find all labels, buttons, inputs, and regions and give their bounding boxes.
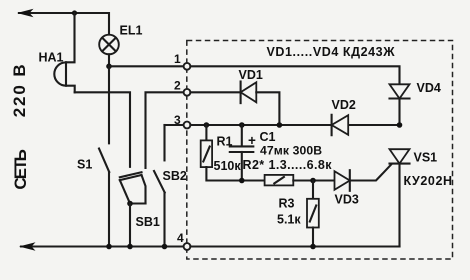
thyristor VS1	[390, 149, 410, 246]
svg-text:SB2: SB2	[163, 169, 187, 183]
svg-text:5.1к: 5.1к	[277, 213, 301, 227]
wire: node 1 to VD4	[190, 66, 399, 84]
dashed module boundary box	[187, 41, 453, 260]
node 2	[184, 89, 191, 96]
wire: lamp bottom lead	[108, 54, 110, 66]
svg-text:R2* 1.3.....6.8к: R2* 1.3.....6.8к	[243, 158, 333, 172]
junction: top wire / bell branch	[72, 10, 77, 15]
svg-text:КУ202Н: КУ202Н	[404, 174, 453, 188]
svg-text:S1: S1	[77, 158, 92, 172]
svg-text:VD4: VD4	[417, 81, 441, 95]
junction: VD1 lead	[277, 122, 283, 128]
svg-text:EL1: EL1	[120, 24, 143, 38]
junction: SB2 bottom lead	[162, 244, 168, 250]
push-button SB1	[120, 172, 146, 203]
svg-text:HA1: HA1	[39, 51, 64, 65]
junction: R3 bottom	[310, 244, 316, 250]
wire: to node 1	[109, 65, 184, 67]
svg-text:VS1: VS1	[414, 151, 438, 165]
wire: SB2 branch to node 3	[165, 124, 184, 126]
wire: SB1 to bottom conductor	[129, 204, 131, 247]
svg-text:47мк 300В: 47мк 300В	[260, 144, 322, 158]
wire: bell to SB1 left contact	[75, 92, 130, 167]
wire: node 4 to VS1 cathode	[190, 245, 399, 247]
svg-text:VD1.....VD4 КД243Ж: VD1.....VD4 КД243Ж	[267, 45, 396, 59]
svg-text:VD1: VD1	[239, 68, 263, 82]
junction: C1 top	[239, 122, 245, 128]
junction: VD4/VS1 column	[397, 122, 403, 128]
svg-text:2: 2	[174, 79, 181, 93]
junction: R2/VD3/R3	[310, 178, 316, 184]
svg-text:C1: C1	[260, 130, 276, 144]
resistor R1	[201, 125, 265, 181]
junction: lamp / node-1 wire / S1	[106, 64, 112, 70]
diode VD3	[335, 170, 350, 191]
mains arrow (bottom)	[19, 242, 36, 251]
svg-text:VD2: VD2	[332, 98, 356, 112]
switch S1	[99, 66, 109, 246]
bell HA1	[54, 13, 74, 92]
node 3	[184, 122, 191, 129]
svg-text:R3: R3	[279, 197, 295, 211]
svg-text:+: +	[248, 133, 256, 148]
svg-text:VD3: VD3	[335, 193, 359, 207]
node 1	[184, 63, 191, 70]
wire: node 2 to VD1	[190, 91, 240, 93]
junction: SB1 bottom lead	[127, 244, 133, 250]
mains arrow (top)	[17, 9, 34, 18]
svg-text:SB1: SB1	[136, 215, 160, 229]
push-button SB2	[154, 125, 165, 247]
svg-text:220 В: 220 В	[10, 64, 29, 117]
resistor R2	[265, 175, 335, 186]
wire: node-3 rail	[190, 124, 399, 126]
diode VD2	[332, 115, 349, 135]
wire: bottom mains conductor	[21, 245, 184, 247]
junction: R1 top	[204, 122, 210, 128]
svg-text:510к: 510к	[214, 159, 242, 173]
wire: top mains conductor	[19, 13, 109, 35]
diode VD4	[390, 84, 410, 125]
node 4	[184, 243, 191, 250]
capacitor C1	[230, 125, 254, 181]
junction: C1 bottom	[239, 178, 245, 184]
lamp EL1	[99, 35, 119, 55]
wire: node-2 wire to SB1 right contact	[146, 92, 184, 168]
svg-text:СЕТЬ: СЕТЬ	[11, 149, 30, 190]
svg-text:4: 4	[177, 231, 184, 245]
svg-text:3: 3	[174, 113, 181, 127]
wire: VD3 to VS1 gate	[350, 165, 391, 181]
junction: S1 bottom	[106, 244, 112, 250]
resistor R3	[307, 181, 319, 247]
wire: VD1 to node-3 rail	[256, 92, 279, 125]
diode VD1	[241, 82, 257, 104]
svg-text:1: 1	[174, 52, 181, 66]
junction: SB1 bottom	[127, 201, 133, 207]
